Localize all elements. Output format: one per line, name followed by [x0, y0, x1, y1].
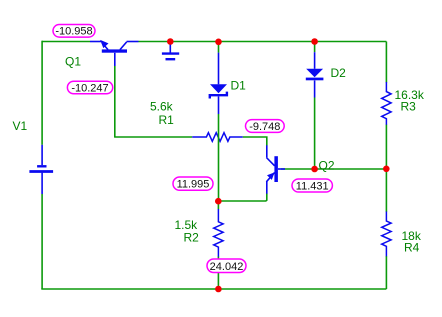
ground stem — [169, 42, 171, 53]
node voltage -9.748 — [246, 120, 285, 133]
ground bar short — [166, 58, 176, 60]
transistor Q2 base stub — [278, 168, 285, 170]
wire top rail right — [139, 41, 387, 43]
node dot R2 bottom — [215, 286, 222, 293]
diode D1 anode lead — [218, 53, 220, 85]
svg-text:-10.958: -10.958 — [55, 26, 92, 38]
resistor R3 leads and zigzag — [382, 82, 391, 125]
wire D2 column upper — [314, 42, 316, 53]
transistor Q2 body bar — [274, 156, 278, 182]
svg-text:24.042: 24.042 — [210, 261, 244, 273]
svg-text:R1: R1 — [159, 113, 175, 127]
node voltage 24.042 — [207, 259, 246, 273]
battery V1 short plate — [37, 165, 46, 167]
wire Q1 base column — [114, 66, 116, 137]
wire R2 column upper — [217, 201, 219, 209]
node voltage -10.958 — [53, 25, 95, 38]
wire top rail left — [42, 41, 90, 43]
node dot Q2 base / D2 bottom — [311, 166, 318, 173]
resistor R2 leads and zigzag — [214, 209, 223, 257]
wire bottom rail — [41, 288, 386, 290]
svg-text:-10.247: -10.247 — [71, 82, 108, 94]
transistor Q2 collector vertical lead — [266, 145, 268, 157]
wire right rail upper — [385, 42, 387, 83]
svg-text:D1: D1 — [231, 79, 247, 93]
svg-text:D2: D2 — [331, 66, 347, 80]
wire R2 column lower — [217, 256, 219, 289]
transistor Q1 base lead — [114, 53, 116, 66]
node voltage 11.431 — [292, 179, 332, 192]
node dot R2 top — [215, 198, 222, 205]
resistor R1 leads and zigzag — [192, 133, 243, 142]
transistor Q1 emitter arrow — [100, 40, 108, 48]
svg-text:R2: R2 — [184, 231, 200, 245]
wire R1 row right with corner to Q2 collector — [243, 137, 267, 146]
resistor R4 leads and zigzag — [382, 212, 391, 257]
transistor Q2 emitter diagonal — [266, 173, 274, 182]
transistor Q1 collector lead — [127, 41, 139, 43]
node voltage 11.995 — [173, 177, 213, 190]
transistor Q1 collector diagonal — [120, 42, 127, 50]
zener D1 cathode bar with tabs — [210, 92, 227, 99]
transistor Q2 emitter vertical lead — [266, 182, 268, 194]
wire D1 column lower (crosses R1 zigzag) — [218, 114, 220, 201]
svg-text:Q1: Q1 — [65, 55, 81, 69]
diode D2 triangle — [306, 69, 323, 78]
node voltage -10.247 — [67, 81, 112, 94]
transistor Q1 body bar — [102, 49, 127, 52]
wire right rail middle — [385, 125, 387, 212]
wire Q2 base row — [281, 168, 386, 170]
diode D1 cathode lead — [218, 97, 220, 115]
svg-text:11.995: 11.995 — [177, 179, 210, 191]
wire Q2 emitter corner — [218, 194, 267, 202]
node dot ground tap — [167, 38, 174, 45]
svg-text:Q2: Q2 — [319, 159, 335, 173]
diode D2 anode lead — [314, 52, 316, 69]
diode D1 triangle — [210, 84, 227, 93]
svg-text:5.6k: 5.6k — [150, 100, 174, 114]
node dot D2 top — [311, 38, 318, 45]
wire left rail upper — [41, 41, 43, 145]
battery V1 long plate — [29, 170, 53, 173]
wire R1 row left — [114, 136, 192, 138]
svg-text:R3: R3 — [401, 100, 417, 114]
transistor Q1 emitter diagonal — [102, 43, 108, 50]
diode D2 cathode lead — [314, 81, 316, 98]
svg-text:V1: V1 — [13, 119, 28, 133]
node dot R3/R4 junction — [383, 166, 390, 173]
transistor Q2 emitter arrow — [267, 172, 275, 180]
battery V1 top stem — [41, 145, 43, 165]
svg-text:R4: R4 — [404, 241, 420, 255]
node dot D1 top — [215, 39, 222, 46]
ground bar long — [162, 52, 179, 54]
diode D2 cathode bar — [306, 78, 324, 81]
wire D2 column lower — [314, 98, 316, 170]
svg-text:11.431: 11.431 — [296, 181, 329, 193]
wire right rail lower — [385, 256, 387, 289]
wire left rail lower — [41, 194, 43, 289]
battery V1 bottom stem — [41, 173, 43, 194]
transistor Q1 emitter lead — [90, 41, 102, 43]
wire D1 column upper — [218, 42, 220, 53]
transistor Q2 collector diagonal — [266, 158, 274, 166]
svg-text:-9.748: -9.748 — [249, 121, 280, 133]
